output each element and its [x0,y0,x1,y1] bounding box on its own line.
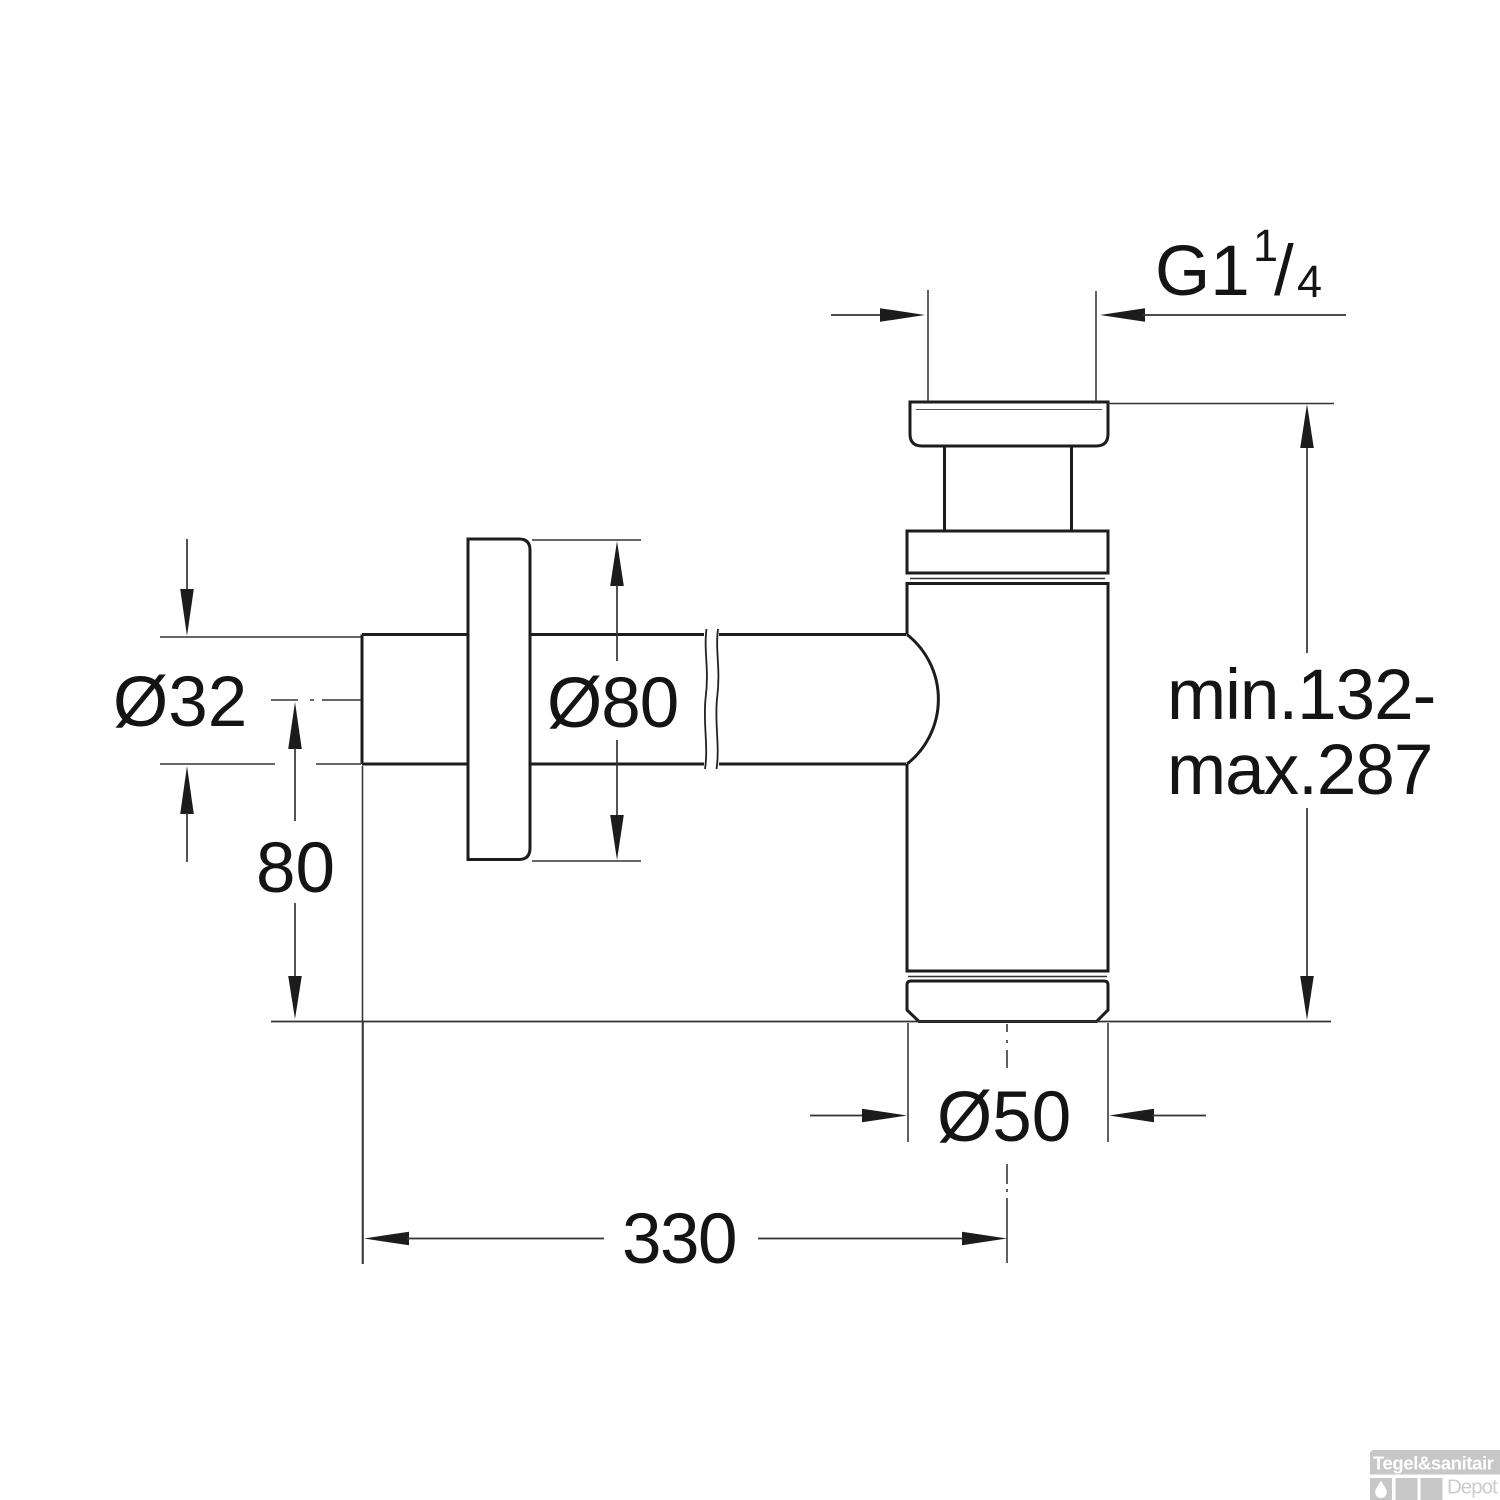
neck of inlet nut [945,446,1072,531]
svg-text:Ø80: Ø80 [547,664,678,743]
height arrow pointing up [1300,404,1314,448]
wall line below pipe [362,766,364,1264]
O50 extension line right [1107,1023,1109,1142]
80 dimension line upper segment [294,748,296,821]
ground baseline [271,1021,1331,1023]
svg-text:max.287: max.287 [1167,731,1432,810]
80 arrow pointing down [288,976,302,1019]
height dimension line lower segment [1306,808,1308,976]
330 arrow pointing left [364,1232,409,1246]
inlet pipe left end [361,635,364,765]
O80 extension line top [532,539,641,541]
svg-text:min.132-: min.132- [1167,656,1435,735]
svg-text:330: 330 [622,1200,736,1279]
330 arrow pointing right [962,1232,1007,1246]
O80 arrow pointing up [610,541,624,586]
top flange of inlet nut [910,402,1108,446]
trap body (cup) [907,584,1108,972]
height reference line to flange top [1108,403,1334,405]
O50 dimension line right [1152,1115,1206,1117]
G1 1/4 extension line left [927,290,929,401]
pipe centre dash-dot line [271,699,361,701]
G1 1/4 dimension line left segment [831,314,882,316]
pipe break squiggle left [705,629,707,769]
O80 dimension line upper segment [616,585,618,661]
watermark square 2 [1396,1478,1418,1500]
O80 arrow pointing down [610,815,624,860]
330 dimension line left segment [407,1238,604,1240]
svg-text:Ø32: Ø32 [113,663,247,742]
O50 arrow pointing right [862,1109,907,1123]
inlet pipe top edge [362,633,906,636]
pipe end dome inside body [907,635,938,765]
wall flange [468,539,530,860]
svg-text:Tegel&sanitair: Tegel&sanitair [1373,1453,1494,1474]
O32 extension line bottom [160,763,361,765]
bottom cap of body [907,981,1108,1022]
drop icon [1375,1481,1387,1499]
80 dimension line lower segment [294,903,296,977]
seam above bottom cap [908,976,1107,978]
O50 extension line left [907,1023,909,1142]
O80 dimension line lower segment [616,740,618,817]
svg-text:Depot: Depot [1447,1476,1498,1499]
O32 top arrow tail [186,539,188,590]
330 extension line left [362,1022,364,1264]
O50 dimension line left [810,1115,864,1117]
upper coupling nut [907,531,1108,573]
svg-text:Ø50: Ø50 [937,1078,1071,1157]
body centre dash-dot line [1006,1024,1008,1263]
thread shoulder thin line [916,409,1102,411]
seam under coupling nut [910,578,1105,580]
height arrow pointing down [1300,976,1314,1020]
svg-text:G1: G1 [1155,232,1250,311]
watermark square with drop [1370,1478,1392,1500]
watermark banner [1370,1450,1500,1475]
inlet pipe bottom edge [362,763,906,766]
pipe break squiggle right [716,629,718,769]
O80 extension line bottom [532,860,641,862]
80 arrow pointing up [288,702,302,749]
watermark square 3 [1421,1478,1443,1500]
svg-text:80: 80 [256,829,335,908]
O50 arrow pointing left [1109,1109,1154,1123]
G1 1/4 extension line right [1095,291,1097,401]
330 dimension line right segment [758,1238,963,1240]
G1 1/4 dimension line right segment [1143,314,1346,316]
O32 arrow pointing up [180,766,194,814]
svg-text:/: / [1274,232,1294,311]
O32 arrow pointing down [180,589,194,636]
height dimension line upper segment [1306,448,1308,653]
O32 bottom arrow tail [186,813,188,862]
G1 1/4 arrow pointing right [880,308,925,322]
svg-text:4: 4 [1297,256,1322,307]
G1 1/4 arrow pointing left [1100,308,1145,322]
O32 extension line top [160,636,361,638]
